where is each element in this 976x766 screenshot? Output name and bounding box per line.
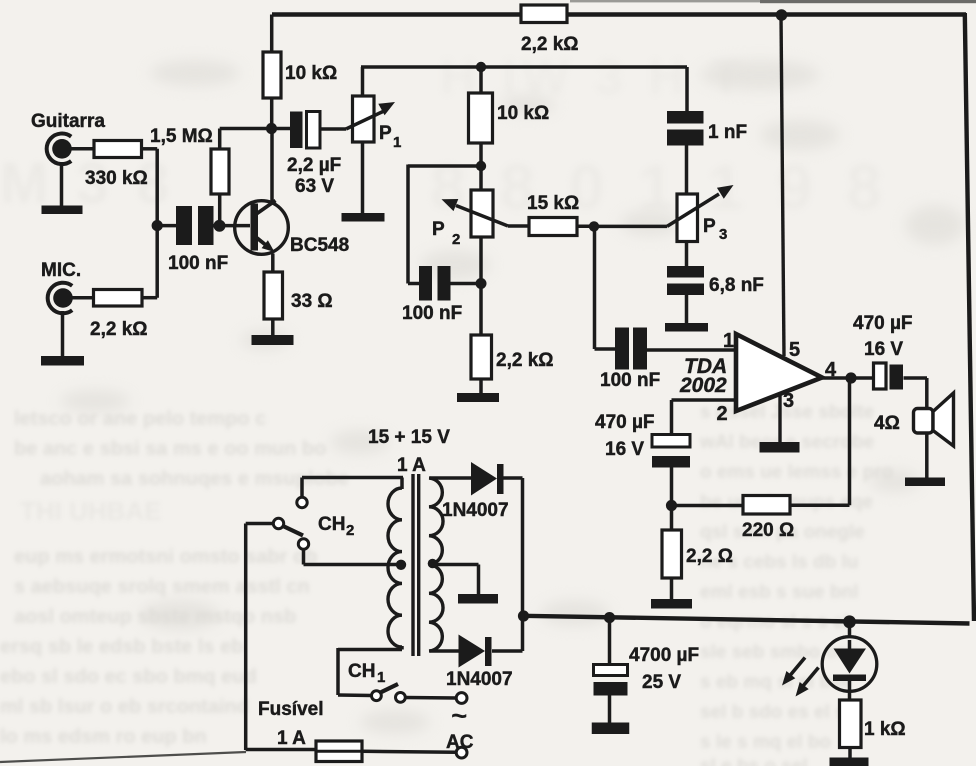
svg-text:2: 2 (717, 403, 728, 425)
svg-text:CH: CH (348, 661, 375, 682)
svg-text:100 nF: 100 nF (168, 253, 228, 274)
svg-text:1: 1 (723, 330, 734, 352)
svg-text:1: 1 (377, 669, 385, 686)
svg-text:100 nF: 100 nF (600, 370, 660, 391)
svg-text:2,2 µF: 2,2 µF (287, 155, 341, 176)
svg-text:470 µF: 470 µF (595, 412, 655, 433)
svg-text:BC548: BC548 (290, 235, 349, 256)
svg-text:P: P (379, 123, 392, 144)
svg-text:220 Ω: 220 Ω (742, 520, 794, 541)
svg-text:1 A: 1 A (397, 455, 426, 476)
svg-text:16 V: 16 V (605, 439, 644, 460)
svg-text:1 nF: 1 nF (708, 122, 747, 143)
svg-text:5: 5 (789, 339, 800, 361)
svg-text:1N4007: 1N4007 (446, 669, 513, 690)
svg-text:MIC.: MIC. (41, 260, 81, 281)
svg-text:2,2 Ω: 2,2 Ω (686, 546, 733, 567)
svg-text:15 + 15 V: 15 + 15 V (368, 427, 450, 448)
svg-text:1,5 MΩ: 1,5 MΩ (150, 126, 213, 147)
svg-text:2,2 kΩ: 2,2 kΩ (90, 319, 148, 340)
svg-text:4700 µF: 4700 µF (629, 645, 699, 666)
svg-text:10 kΩ: 10 kΩ (497, 103, 549, 124)
svg-text:4: 4 (825, 359, 837, 381)
svg-text:~: ~ (451, 700, 467, 731)
svg-text:470 µF: 470 µF (853, 313, 913, 334)
svg-text:2: 2 (452, 231, 460, 248)
svg-text:3: 3 (719, 226, 727, 243)
svg-text:10 kΩ: 10 kΩ (285, 63, 337, 84)
svg-text:2,2 kΩ: 2,2 kΩ (521, 34, 579, 55)
svg-text:2,2 kΩ: 2,2 kΩ (496, 350, 554, 371)
svg-text:63 V: 63 V (295, 176, 334, 197)
svg-text:1 kΩ: 1 kΩ (864, 719, 906, 740)
svg-text:100 nF: 100 nF (402, 303, 462, 324)
svg-text:CH: CH (318, 514, 345, 535)
svg-text:2002: 2002 (679, 374, 727, 397)
svg-text:1 A: 1 A (277, 728, 306, 749)
svg-text:P: P (703, 216, 716, 237)
svg-text:6,8 nF: 6,8 nF (709, 275, 764, 296)
svg-text:3: 3 (783, 390, 794, 412)
svg-text:Guitarra: Guitarra (31, 111, 105, 132)
svg-text:1N4007: 1N4007 (442, 500, 509, 521)
svg-text:15 kΩ: 15 kΩ (527, 193, 579, 214)
svg-text:25 V: 25 V (642, 672, 681, 693)
svg-text:Fusível: Fusível (258, 699, 323, 720)
svg-text:4Ω: 4Ω (874, 413, 900, 434)
svg-text:16 V: 16 V (864, 339, 903, 360)
svg-text:P: P (432, 219, 445, 240)
svg-text:2: 2 (346, 522, 354, 539)
svg-text:1: 1 (393, 134, 401, 151)
svg-text:330 kΩ: 330 kΩ (85, 168, 148, 189)
svg-text:33 Ω: 33 Ω (291, 291, 333, 312)
